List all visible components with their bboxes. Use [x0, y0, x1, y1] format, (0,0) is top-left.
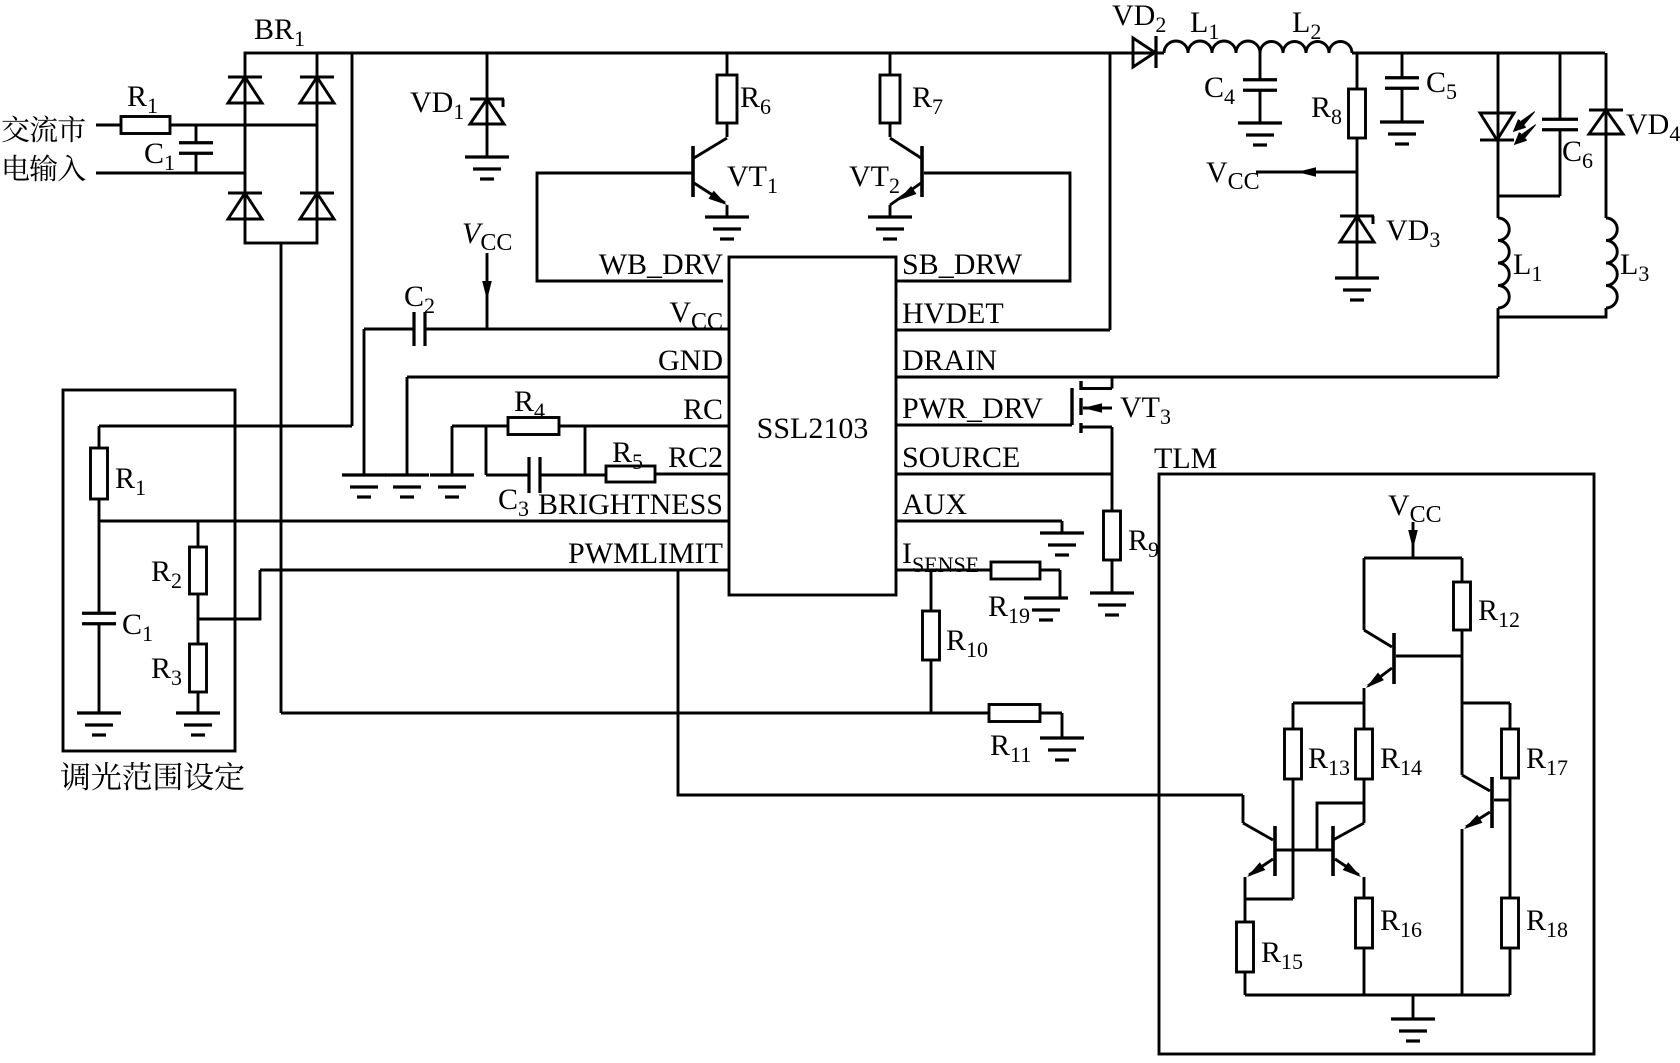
transistor VT1 [726, 123, 729, 137]
node dimming box 调光范围设定 [63, 390, 235, 751]
wire base tie [1317, 803, 1364, 850]
IC U1 SSL2103 body [729, 257, 896, 595]
resistor R4 [508, 418, 559, 435]
ground under C1 (dimmer) [77, 711, 121, 714]
ground under C4 [1238, 121, 1282, 124]
ground under VD1 [465, 155, 509, 158]
wire AC live input [96, 124, 121, 127]
resistor R11 [989, 705, 1040, 722]
bridge diode bottom-left [228, 192, 262, 195]
LED load [1497, 53, 1500, 140]
wire AC neutral input [96, 172, 245, 175]
ground RC branch [430, 473, 474, 476]
inductor L2 [1260, 42, 1352, 54]
wire Q2 emitter to R13 [1245, 898, 1293, 901]
wire DRAIN [896, 376, 1498, 379]
svg-text:AUX: AUX [902, 488, 967, 521]
capacitor C1 (AC) [179, 141, 213, 144]
wire TLM top rail [1364, 557, 1462, 560]
svg-text:HVDET: HVDET [902, 297, 1004, 330]
wire PWMLIMIT [260, 569, 729, 572]
wire VT1 base loop [537, 173, 723, 281]
wire HVDET [896, 329, 1110, 332]
resistor R9 [1111, 474, 1114, 511]
label 调光范围设定 [61, 762, 89, 790]
wire RC pin [452, 425, 508, 428]
svg-text:TLM: TLM [1154, 442, 1217, 475]
bridge diode top-left [228, 76, 262, 79]
wire BRIGHTNESS [99, 520, 729, 523]
inductor L1 (output) [1498, 218, 1509, 308]
svg-text:SOURCE: SOURCE [902, 441, 1020, 474]
svg-text:PWR_DRV: PWR_DRV [902, 392, 1043, 425]
ground under R3 [176, 711, 220, 714]
resistor R2 [197, 521, 200, 547]
resistor R7 [889, 53, 892, 75]
capacitor C2 [412, 312, 415, 346]
ground under VT2 [868, 215, 912, 218]
resistor R12 [1461, 558, 1464, 582]
resistor R5 [606, 466, 655, 482]
wire R2-R3 junction to PWMLIMIT [197, 594, 200, 644]
ground TLM [1412, 995, 1415, 1019]
inductor L3 [1606, 218, 1617, 308]
wire LED cathode [1497, 140, 1500, 218]
wire GND pin [407, 376, 729, 379]
resistor R1 (dimmer) [98, 426, 101, 448]
node AC input text 交流市电输入 [2, 116, 29, 143]
ground GND pin [385, 473, 429, 476]
resistor R6 [726, 53, 729, 75]
resistor R14 [1363, 703, 1366, 729]
transistor Q2 [1242, 795, 1245, 823]
wire LED to C6 [1498, 195, 1560, 198]
ground under R9 [1090, 591, 1134, 594]
wire R4 right junction [584, 426, 587, 475]
svg-text:WB_DRV: WB_DRV [599, 248, 724, 281]
wire SOURCE pin [896, 473, 1112, 476]
ground under R11 [1040, 736, 1084, 739]
transistor VT2 [889, 123, 892, 137]
svg-text:GND: GND [658, 344, 723, 377]
wire bridge negative output [280, 243, 283, 713]
resistor R13 [1292, 703, 1295, 729]
wire PWMLIMIT to TLM [678, 570, 1243, 795]
ground under C2 branch [363, 329, 366, 475]
svg-text:BRIGHTNESS: BRIGHTNESS [538, 488, 723, 521]
resistor R19 [991, 562, 1040, 579]
svg-text:PWMLIMIT: PWMLIMIT [568, 537, 723, 570]
resistor R15 [1244, 899, 1247, 922]
wire ISENSE pin [896, 569, 991, 572]
wire mirror top rail [1293, 702, 1364, 705]
bridge rectifier BR1 body [245, 53, 317, 243]
svg-text:SB_DRW: SB_DRW [902, 248, 1023, 281]
wire negative rail to R11 [281, 712, 989, 715]
diode VD3 (zener) [1340, 215, 1374, 218]
ground under VD3 [1335, 276, 1379, 279]
node VCC feed arrow [486, 253, 489, 329]
resistor R17 [1462, 702, 1510, 705]
svg-text:RC2: RC2 [668, 441, 723, 474]
wire R1 to bridge [170, 124, 317, 127]
diode VD4 [1605, 53, 1608, 218]
wire AUX pin [896, 520, 1062, 523]
resistor R18 [1509, 800, 1512, 898]
wire drain riser [1497, 317, 1500, 377]
ground under VT1 [705, 215, 749, 218]
wire L1-L3 bottom [1498, 308, 1606, 317]
ground under R19 [1024, 596, 1068, 599]
capacitor C4 [1259, 53, 1262, 80]
wire rail to dimmer branch [351, 53, 354, 426]
svg-text:RC: RC [683, 393, 723, 426]
ground AUX [1040, 531, 1084, 534]
wire SB_DRW pin [896, 280, 902, 283]
resistor R8 [1356, 53, 1359, 89]
inductor L1 (filter) [1164, 41, 1260, 53]
capacitor C3 [486, 474, 529, 477]
transistor Q1 [1363, 558, 1366, 630]
node VCC tap arrow [1256, 171, 1357, 174]
transistor Q4 [1461, 703, 1464, 775]
capacitor C6 [1559, 53, 1562, 119]
node VCC arrow (TLM) [1412, 522, 1415, 558]
wire TLM bottom rail [1245, 994, 1510, 997]
svg-text:DRAIN: DRAIN [902, 344, 997, 377]
diode VD1 (zener) [486, 53, 489, 157]
wire VT2 base loop [902, 173, 1070, 281]
transistor VT3 (MOSFET) [1070, 388, 1073, 425]
wire PWR_DRV to gate [896, 424, 1072, 427]
capacitor C1 (dimmer) [98, 521, 101, 613]
svg-text:SSL2103: SSL2103 [757, 412, 869, 445]
bridge diode bottom-right [300, 192, 334, 195]
resistor R3 [190, 644, 207, 692]
wire top rail [317, 52, 1164, 55]
capacitor C5 [1401, 53, 1404, 78]
ground under C5 [1380, 120, 1424, 123]
transistor Q3 [1331, 826, 1335, 876]
node TLM box [1159, 474, 1594, 1054]
resistor R10 [930, 570, 933, 611]
resistor R1 (AC) [121, 117, 170, 134]
wire R4 left to C3 [485, 426, 488, 475]
bridge diode top-right [300, 76, 334, 79]
diode VD2 [1133, 38, 1155, 67]
resistor R16 [1356, 898, 1373, 948]
